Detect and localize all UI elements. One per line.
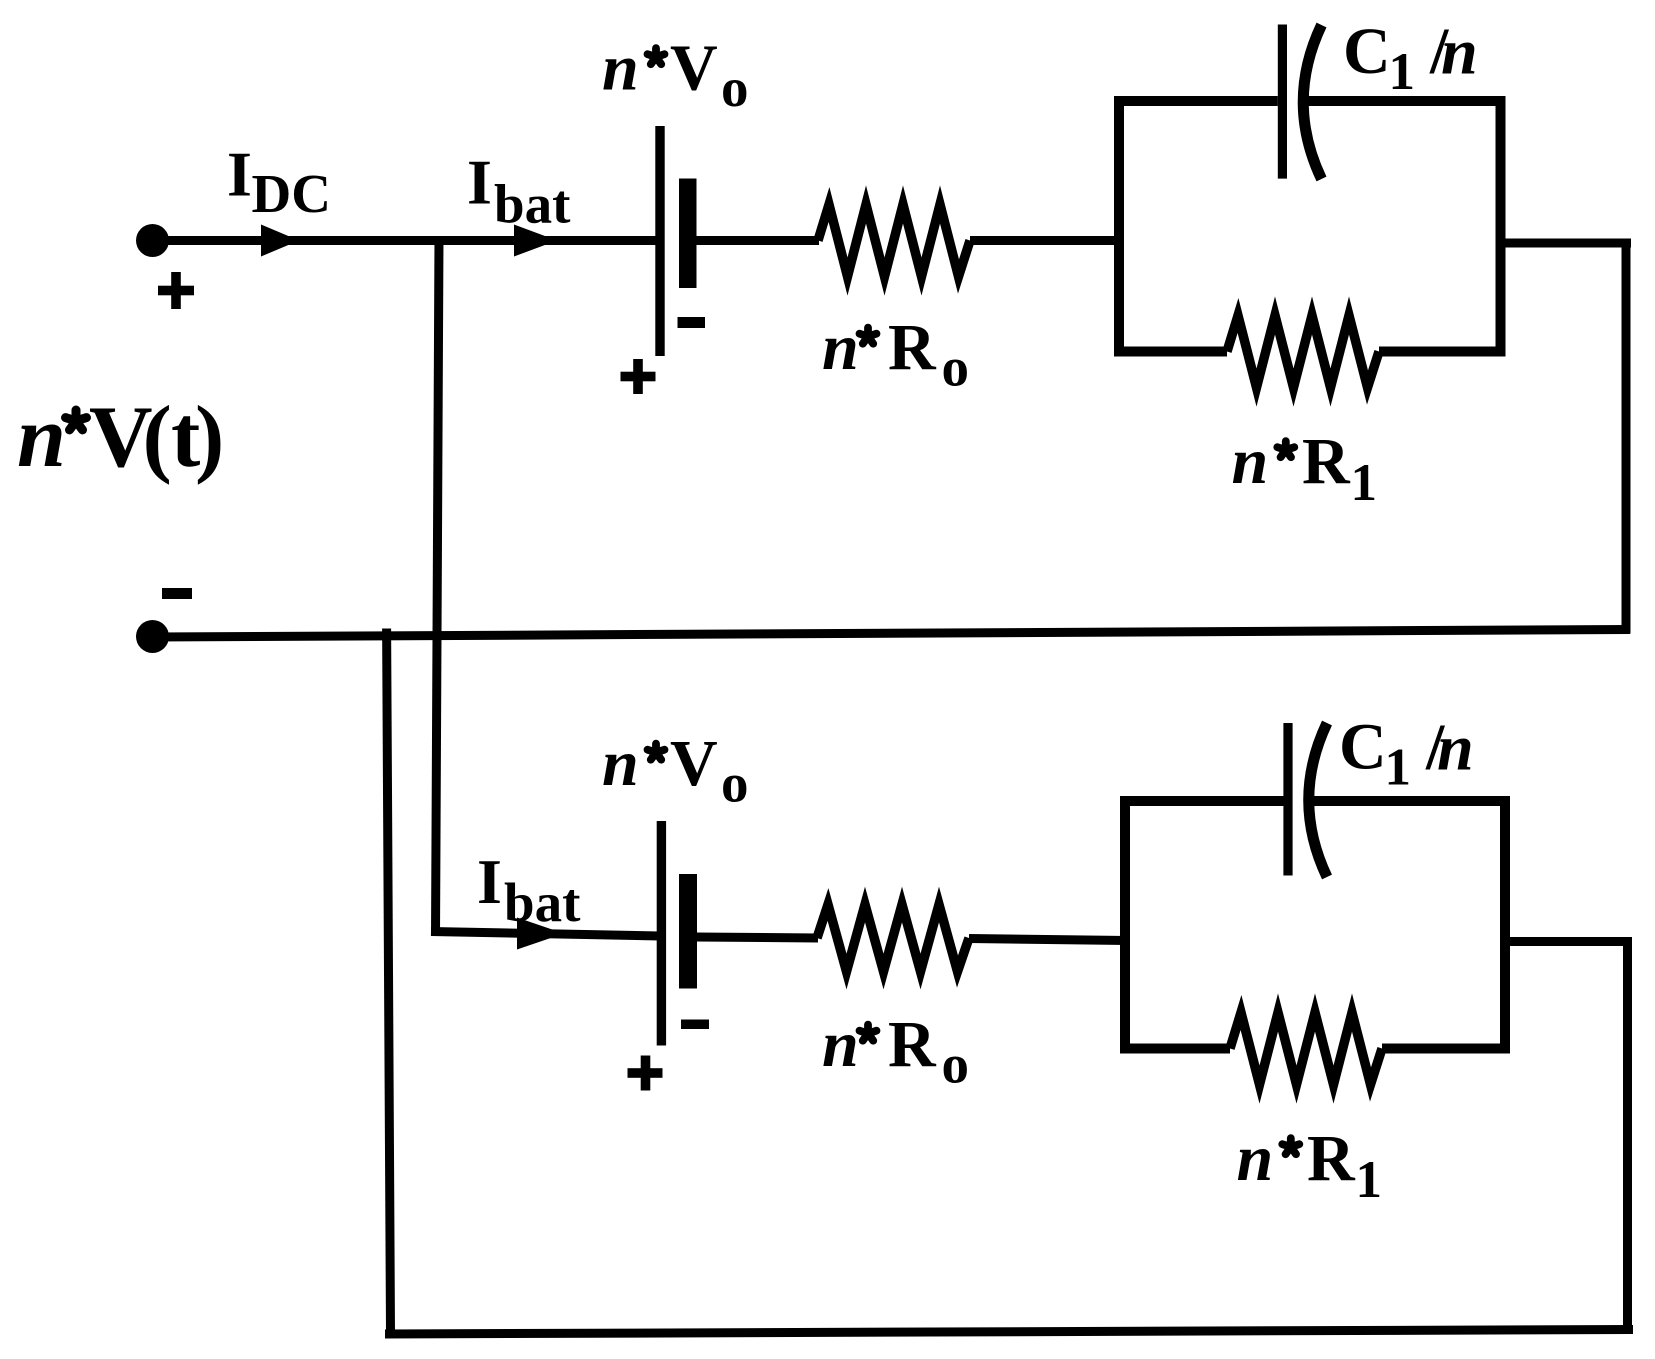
- wire resistor to RC block 2: [969, 939, 1127, 941]
- RC block 2 top wire left segment: [1120, 796, 1284, 806]
- bottom rail wire: [385, 1330, 1633, 1335]
- wire battery 1 to resistor n*Ro: [694, 236, 819, 245]
- capacitor C1/n plate (branch 1): [1278, 25, 1287, 179]
- capacitor C1/n curved plate (branch 2): [1309, 723, 1327, 877]
- svg-text:bat: bat: [504, 872, 581, 933]
- wire from + node to battery 1: [153, 236, 659, 245]
- plus sign at positive terminal: [158, 272, 194, 309]
- svg-text:n: n: [17, 389, 66, 486]
- minus label at negative terminal: [162, 588, 192, 599]
- svg-text:DC: DC: [252, 163, 331, 224]
- battery 1 long thin plate: [655, 126, 664, 356]
- battery 2 plus label: [628, 1056, 663, 1091]
- node negative terminal: [136, 620, 169, 653]
- capacitor C1/n curved plate (branch 1): [1303, 25, 1321, 179]
- right vertical wire branch 2: [1623, 942, 1632, 1334]
- bottom left vertical wire: [387, 629, 391, 1334]
- battery 2 short thick plate: [679, 874, 697, 989]
- resistor n*R1 branch 1: [1227, 316, 1379, 388]
- svg-text:o: o: [942, 1034, 970, 1095]
- battery 2 minus label: [681, 1020, 709, 1030]
- right vertical wire branch 1: [1622, 243, 1631, 634]
- resistor n*R1 branch 2: [1230, 1013, 1382, 1085]
- junction wire down to branch 2: [436, 236, 440, 936]
- resistor n*Ro branch 1: [818, 205, 970, 277]
- RC block 1 top wire right segment: [1308, 96, 1505, 106]
- svg-text:1: 1: [1385, 739, 1412, 797]
- svg-text:1: 1: [1356, 1151, 1383, 1209]
- wire battery 2 to resistor n*Ro branch 2: [695, 937, 818, 938]
- RC block 1 bottom wire right segment: [1379, 347, 1506, 357]
- arrow I_DC: [261, 225, 299, 257]
- wire RC block 2 to right corner: [1505, 937, 1632, 946]
- svg-text:o: o: [942, 337, 970, 398]
- svg-text:I: I: [477, 846, 502, 917]
- arrow I_bat branch 2: [517, 918, 564, 950]
- svg-text:bat: bat: [494, 174, 571, 235]
- arrow I_bat branch 1: [514, 225, 557, 257]
- battery 2 long thin plate: [657, 821, 666, 1046]
- RC block 1 bottom wire left segment: [1114, 347, 1227, 357]
- svg-text:1: 1: [1389, 43, 1416, 101]
- svg-text:V(t): V(t): [89, 389, 224, 486]
- resistor n*Ro branch 2: [817, 905, 969, 972]
- RC block 2 top wire right segment: [1314, 796, 1510, 806]
- RC block 2 bottom wire right segment: [1382, 1044, 1510, 1054]
- RC block 1 right side: [1496, 96, 1506, 357]
- svg-text:o: o: [721, 57, 749, 118]
- RC block 2 left side: [1120, 796, 1130, 1054]
- negative rail wire: [153, 630, 1631, 638]
- branch 2 wire from junction to battery 2: [431, 932, 660, 937]
- RC block 1 left side: [1114, 96, 1124, 357]
- RC block 1 top wire left segment: [1114, 96, 1278, 106]
- battery 1 short thick plate: [679, 179, 697, 289]
- RC block 2 bottom wire left segment: [1120, 1044, 1230, 1054]
- battery 1 minus label: [678, 317, 706, 328]
- RC block 2 right side: [1500, 796, 1510, 1054]
- svg-text:I: I: [467, 147, 492, 218]
- svg-text:n: n: [1441, 16, 1478, 89]
- svg-text:n: n: [1437, 712, 1474, 785]
- svg-text:C: C: [1339, 711, 1387, 784]
- svg-text:C: C: [1343, 15, 1391, 88]
- capacitor C1/n plate (branch 2): [1283, 723, 1292, 876]
- svg-text:I: I: [227, 138, 252, 209]
- wire resistor to RC block 1: [970, 236, 1121, 245]
- svg-text:o: o: [721, 753, 749, 814]
- node positive terminal: [136, 224, 169, 257]
- battery 1 plus label: [621, 359, 656, 394]
- wire RC block 1 to right corner: [1501, 239, 1632, 248]
- svg-text:1: 1: [1351, 454, 1378, 512]
